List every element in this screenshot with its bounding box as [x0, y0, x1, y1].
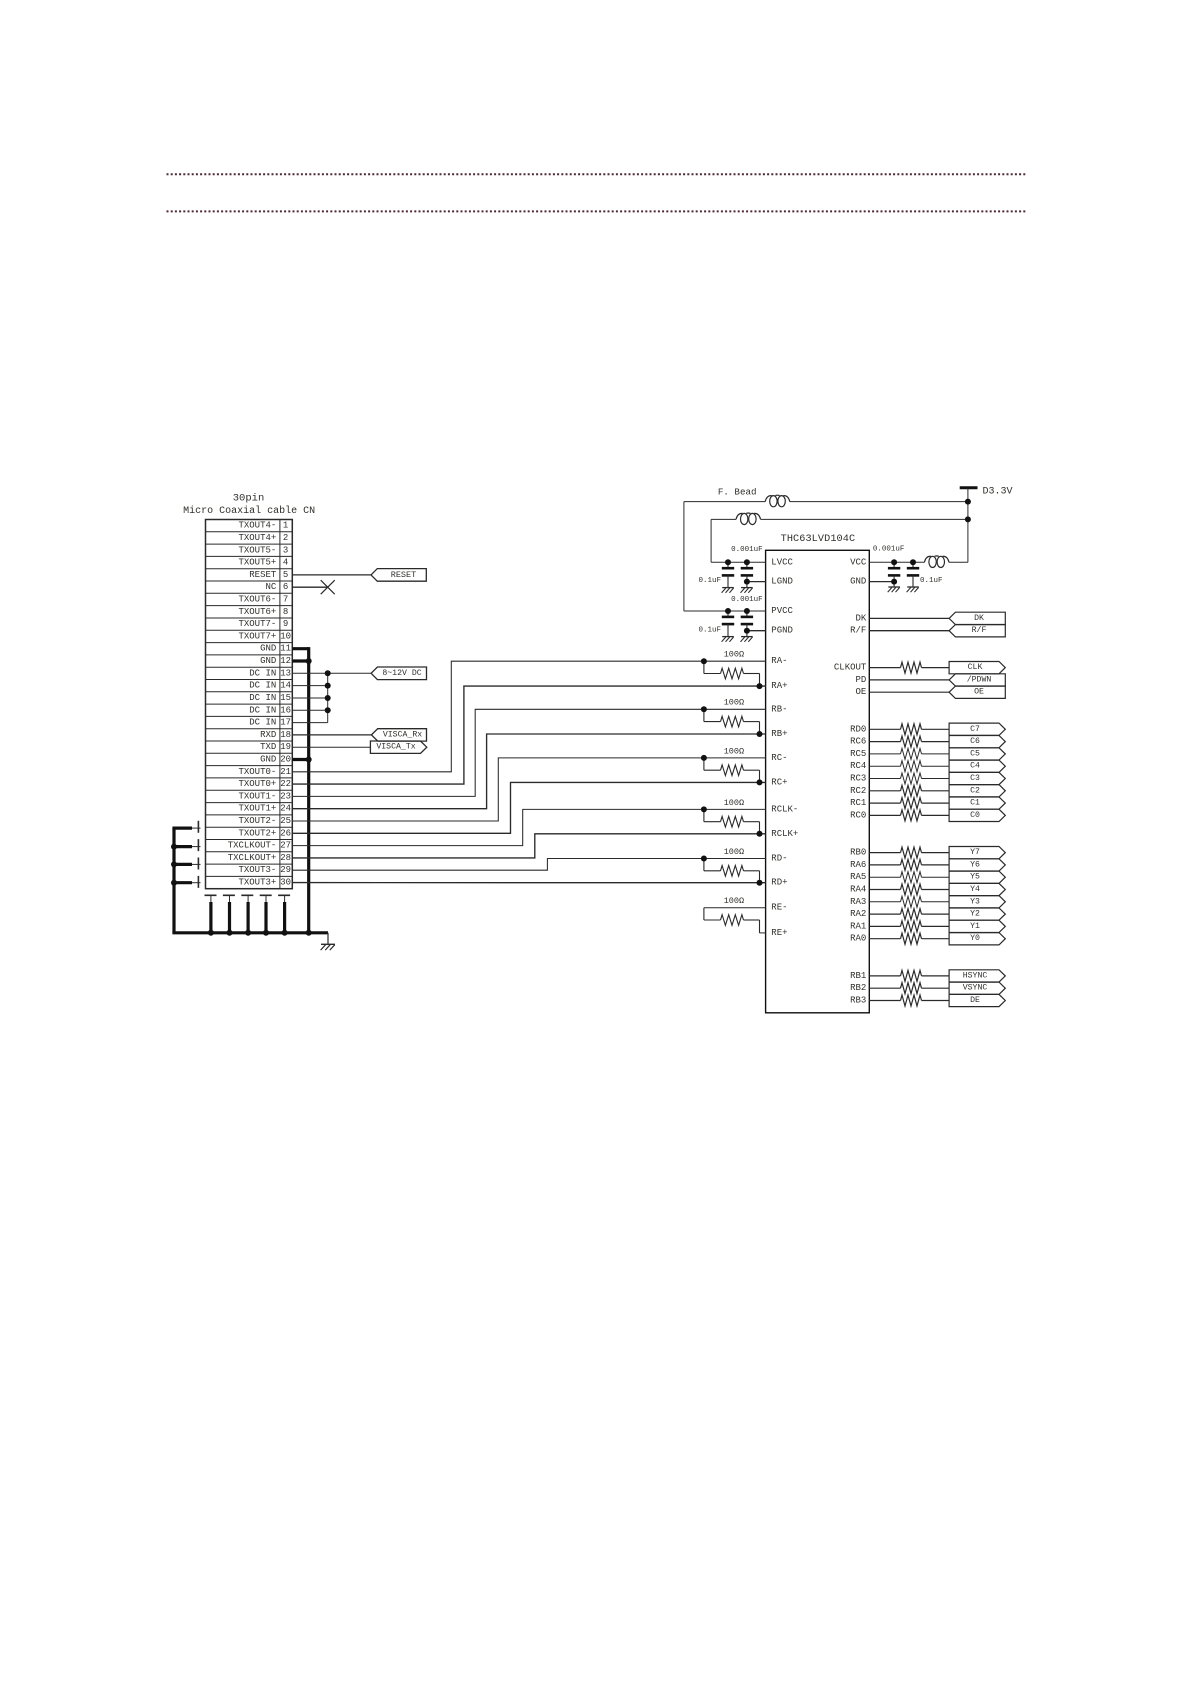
svg-text:D3.3V: D3.3V: [983, 487, 1013, 498]
junction DC IN pin 15: [325, 695, 331, 701]
junction pin20 on GND bus: [306, 757, 312, 763]
svg-text:TXOUT6+: TXOUT6+: [238, 607, 276, 617]
pin 12 GND row: [206, 656, 293, 667]
svg-text:CLKOUT: CLKOUT: [834, 663, 867, 673]
svg-text:Y3: Y3: [970, 897, 980, 906]
svg-text:GND: GND: [260, 656, 276, 666]
shield drain wire 3 below connector: [247, 895, 249, 933]
svg-text:RA-: RA-: [771, 656, 787, 666]
svg-text:GND: GND: [260, 755, 276, 765]
svg-text:RA5: RA5: [850, 872, 866, 882]
svg-text:RC0: RC0: [850, 810, 866, 820]
svg-text:9: 9: [283, 619, 288, 629]
pin 7 TXOUT6- row: [206, 595, 293, 606]
resistor+flag HSYNC from RB1: [869, 970, 1005, 982]
svg-text:20: 20: [280, 755, 291, 765]
connector CN1 title 30pin: [183, 492, 315, 517]
svg-text:100Ω: 100Ω: [724, 650, 744, 660]
junction shield drain on ground line: [245, 930, 251, 936]
shield drain bus left vertical: [172, 828, 175, 933]
svg-text:RB+: RB+: [771, 729, 787, 739]
svg-text:21: 21: [280, 767, 291, 777]
junction shield drain on ground line: [263, 930, 269, 936]
svg-text:TXOUT2+: TXOUT2+: [238, 828, 276, 838]
svg-text:RCLK+: RCLK+: [771, 829, 798, 839]
svg-text:29: 29: [280, 865, 291, 875]
ferrite bead FB2: [736, 513, 761, 525]
svg-text:Y7: Y7: [970, 848, 980, 857]
svg-text:RC+: RC+: [771, 777, 787, 787]
junction shield stub: [171, 861, 177, 867]
capacitor 0.1uF (PVCC) value label: [698, 626, 721, 634]
svg-text:RA1: RA1: [850, 921, 866, 931]
junction pin12 on GND bus: [306, 658, 312, 664]
svg-text:Y2: Y2: [970, 910, 980, 919]
svg-text:RC1: RC1: [850, 798, 866, 808]
pin 11 GND stub: [292, 647, 308, 650]
pin 13 DC IN row: [206, 668, 293, 679]
pin 24 TXOUT1+ row: [206, 804, 293, 815]
svg-text:R/F: R/F: [850, 626, 866, 636]
svg-text:DC IN: DC IN: [249, 681, 276, 691]
svg-text:RA0: RA0: [850, 934, 866, 944]
header dotted rule 2: [167, 210, 1026, 212]
svg-text:RC2: RC2: [850, 786, 866, 796]
junction D3.3V / FB1: [965, 499, 971, 505]
svg-text:10: 10: [280, 631, 291, 641]
svg-text:TXOUT6-: TXOUT6-: [238, 595, 276, 605]
svg-text:LGND: LGND: [771, 577, 793, 587]
cable shield dashed vertical: [197, 821, 199, 890]
junction VCC cap6: [910, 559, 916, 565]
wire pin 23 TXOUT1- to IC: [292, 709, 765, 796]
pin 1 TXOUT4- row: [206, 521, 293, 532]
wire LVCC: [711, 561, 766, 563]
svg-text:Y5: Y5: [970, 873, 980, 882]
pin 5 RESET wire: [292, 574, 371, 576]
capacitor C6 0.1uF at VCC: [907, 562, 920, 592]
svg-text:27: 27: [280, 841, 291, 851]
junction shield stub: [171, 844, 177, 850]
junction shield drain on ground line: [282, 930, 288, 936]
svg-text:TXOUT4+: TXOUT4+: [238, 533, 276, 543]
svg-text:VSYNC: VSYNC: [963, 984, 988, 993]
svg-text:100Ω: 100Ω: [724, 698, 744, 708]
svg-text:14: 14: [280, 681, 291, 691]
svg-text:DC IN: DC IN: [249, 693, 276, 703]
pin 19 TXD wire: [292, 746, 370, 748]
pin 30 TXOUT3+ row: [238, 878, 291, 888]
svg-text:RCLK-: RCLK-: [771, 804, 798, 814]
junction VCC cap5: [891, 559, 897, 565]
svg-text:PVCC: PVCC: [771, 606, 793, 616]
svg-text:TXOUT0-: TXOUT0-: [238, 767, 276, 777]
resistor 100 ohm terminator RE: [704, 896, 766, 933]
svg-text:TXOUT2-: TXOUT2-: [238, 816, 276, 826]
svg-text:100Ω: 100Ω: [724, 746, 744, 756]
svg-text:Y0: Y0: [970, 934, 980, 943]
svg-text:4: 4: [283, 558, 288, 568]
svg-text:DK: DK: [855, 613, 866, 623]
svg-text:3: 3: [283, 545, 288, 555]
svg-text:23: 23: [280, 791, 291, 801]
GND bus vertical wire: [307, 647, 310, 933]
svg-text:15: 15: [280, 693, 291, 703]
svg-text:NC: NC: [265, 582, 276, 592]
pin 18 RXD row: [206, 730, 293, 741]
flag VISCA_Tx: [370, 741, 426, 753]
ground: [321, 944, 335, 950]
shield stub 3: [172, 863, 200, 866]
capacitor C1 0.001uF at LVCC: [722, 562, 735, 593]
pin 11 GND row: [206, 644, 293, 655]
cable shield dashed horizontal below connector: [205, 894, 293, 896]
svg-text:TXOUT1-: TXOUT1-: [238, 791, 276, 801]
junction DC IN pin 13: [325, 670, 331, 676]
resistor 100 ohm terminator RD: [701, 847, 763, 886]
wire+flag DK: [869, 612, 1005, 624]
shield stub 4: [172, 881, 200, 884]
capacitor 0.1uF (VCC) value label: [920, 577, 943, 585]
header dotted rule 1: [167, 173, 1026, 175]
pin 22 TXOUT0+ row: [206, 779, 293, 790]
shield stub 2: [172, 845, 200, 848]
no-connect X on pin 6: [321, 580, 335, 594]
svg-text:HSYNC: HSYNC: [963, 971, 988, 980]
F.Bead label: [718, 487, 757, 498]
pin 29 TXOUT3- row: [206, 865, 293, 876]
svg-text:RXD: RXD: [260, 730, 276, 740]
svg-text:8: 8: [283, 607, 288, 617]
wire GND: [869, 581, 894, 583]
pin 14 DC IN row: [206, 681, 293, 692]
capacitor C4 0.1uF at PVCC: [741, 611, 754, 642]
svg-text:RA+: RA+: [771, 681, 787, 691]
junction GND cap5: [891, 579, 897, 585]
resistor+flag Y6 from RA6: [869, 859, 1005, 871]
pin 12 GND stub: [292, 659, 308, 662]
svg-text:0.1uF: 0.1uF: [920, 577, 943, 585]
resistor 100 ohm terminator RB: [701, 698, 763, 737]
resistor+flag Y7 from RB0: [869, 847, 1005, 859]
svg-text:TXOUT1+: TXOUT1+: [238, 804, 276, 814]
svg-text:25: 25: [280, 816, 291, 826]
pin 20 GND row: [206, 755, 293, 766]
wire VCC: [869, 561, 968, 563]
svg-text:C2: C2: [970, 786, 980, 795]
junction shield stub: [171, 880, 177, 886]
wire pin 28 TXCLKOUT+ to IC: [292, 834, 765, 858]
svg-text:VISCA_Tx: VISCA_Tx: [376, 743, 415, 752]
connector CN1 30pin Micro Coaxial cable table outline: [206, 520, 293, 889]
pin 5 RESET row: [206, 570, 293, 581]
resistor+flag C7 from RD0: [869, 723, 1005, 735]
svg-text:100Ω: 100Ω: [724, 847, 744, 857]
pin 8 TXOUT6+ row: [206, 607, 293, 618]
resistor+flag C2 from RC2: [869, 785, 1005, 797]
resistor 100 ohm terminator RC: [701, 746, 763, 785]
wire+flag /PDWN: [869, 674, 1005, 686]
pin 17 DC IN stub: [292, 722, 327, 724]
ferrite bead FB3 at VCC: [924, 556, 949, 568]
capacitor 0.001uF (LVCC) value label: [731, 546, 763, 554]
wire+flag R/F: [869, 625, 1005, 637]
pin 10 TXOUT7+ row: [206, 631, 293, 642]
pin 14 DC IN stub: [292, 685, 327, 687]
svg-text:RA3: RA3: [850, 897, 866, 907]
pin 9 TXOUT7- row: [206, 619, 293, 630]
svg-text:0.001uF: 0.001uF: [873, 546, 905, 554]
svg-text:RC3: RC3: [850, 774, 866, 784]
pin 28 TXCLKOUT+ row: [206, 853, 293, 864]
wire+flag OE: [869, 686, 1005, 698]
IC U1 THC63LVD104C body: [766, 550, 870, 1013]
svg-text:RA2: RA2: [850, 909, 866, 919]
svg-text:TXD: TXD: [260, 742, 276, 752]
svg-text:26: 26: [280, 828, 291, 838]
junction PVCC cap3: [725, 608, 731, 614]
ground symbol tail wire: [327, 933, 329, 945]
svg-text:DC IN: DC IN: [249, 668, 276, 678]
pin 21 TXOUT0- row: [206, 767, 293, 778]
svg-text:GND: GND: [260, 644, 276, 654]
pin 25 TXOUT2- row: [206, 816, 293, 827]
svg-text:7: 7: [283, 595, 288, 605]
resistor+flag Y4 from RA4: [869, 883, 1005, 895]
shield stub 1: [172, 826, 200, 829]
svg-text:DC IN: DC IN: [249, 705, 276, 715]
svg-text:0.001uF: 0.001uF: [731, 596, 763, 604]
svg-text:TXOUT4-: TXOUT4-: [238, 521, 276, 531]
svg-text:100Ω: 100Ω: [724, 798, 744, 808]
wire PVCC: [684, 610, 766, 612]
svg-text:0.001uF: 0.001uF: [731, 546, 763, 554]
flag RESET: [371, 569, 426, 582]
junction DC IN pin 14: [325, 683, 331, 689]
svg-text:C6: C6: [970, 737, 980, 746]
junction DC IN pin 16: [325, 707, 331, 713]
resistor+flag CLK (CLKOUT): [869, 662, 1005, 674]
svg-text:VCC: VCC: [850, 557, 867, 567]
shield drain wire 5 below connector: [284, 895, 286, 933]
svg-text:1: 1: [283, 521, 288, 531]
svg-text:OE: OE: [855, 687, 866, 697]
svg-text:RB2: RB2: [850, 983, 866, 993]
wire pin 27 TXCLKOUT- to IC: [292, 809, 765, 845]
ferrite bead FB1: [765, 495, 790, 507]
svg-text:17: 17: [280, 718, 291, 728]
capacitor 0.001uF (PVCC) value label: [731, 596, 763, 604]
junction LGND cap2: [744, 579, 750, 585]
wire PVCC feed (top): [684, 502, 968, 611]
pin 6 NC wire: [292, 586, 327, 588]
svg-text:TXCLKOUT+: TXCLKOUT+: [228, 853, 277, 863]
svg-text:30pin: 30pin: [233, 492, 265, 504]
svg-text:RC-: RC-: [771, 753, 787, 763]
junction LVCC cap2: [744, 559, 750, 565]
svg-text:C7: C7: [970, 725, 980, 734]
wire LGND: [747, 581, 766, 583]
svg-text:18: 18: [280, 730, 291, 740]
resistor+flag C4 from RC4: [869, 760, 1005, 772]
svg-text:RB3: RB3: [850, 996, 866, 1006]
flag 8~12V DC: [371, 667, 426, 680]
svg-text:TXOUT3-: TXOUT3-: [238, 865, 276, 875]
wire PGND: [747, 630, 766, 632]
svg-text:RC4: RC4: [850, 761, 866, 771]
junction LVCC cap1: [725, 559, 731, 565]
svg-text:RC5: RC5: [850, 749, 866, 759]
svg-text:R/F: R/F: [972, 625, 987, 635]
svg-text:C1: C1: [970, 799, 980, 808]
wire pin 25 TXOUT2- to IC: [292, 758, 765, 821]
pin 4 TXOUT5+ row: [206, 558, 293, 569]
svg-text:VISCA_Rx: VISCA_Rx: [383, 730, 422, 739]
svg-text:12: 12: [280, 656, 291, 666]
svg-text:RB0: RB0: [850, 848, 866, 858]
pin 15 DC IN row: [206, 693, 293, 704]
svg-text:/PDWN: /PDWN: [967, 674, 992, 684]
wire pin 22 TXOUT0+ to IC: [292, 686, 765, 784]
junction shield drain on ground line: [208, 930, 214, 936]
svg-text:TXOUT3+: TXOUT3+: [238, 878, 276, 888]
svg-text:TXOUT7-: TXOUT7-: [238, 619, 276, 629]
svg-text:5: 5: [283, 570, 288, 580]
pin 16 DC IN stub: [292, 709, 327, 711]
svg-text:16: 16: [280, 705, 291, 715]
resistor+flag C6 from RC6: [869, 736, 1005, 748]
resistor+flag C5 from RC5: [869, 748, 1005, 760]
capacitor C2 0.1uF at LVCC: [741, 562, 754, 593]
svg-text:Y6: Y6: [970, 860, 980, 869]
pin 3 TXOUT5- row: [206, 545, 293, 556]
svg-text:RA6: RA6: [850, 860, 866, 870]
svg-text:PD: PD: [855, 675, 866, 685]
wire pin 21 TXOUT0- to IC: [292, 661, 765, 772]
resistor+flag Y2 from RA2: [869, 908, 1005, 920]
power symbol D3.3V: [960, 487, 1013, 563]
svg-text:0.1uF: 0.1uF: [698, 626, 721, 634]
svg-text:6: 6: [283, 582, 288, 592]
shield drain wire 1 below connector: [210, 895, 212, 933]
pin 15 DC IN stub: [292, 697, 327, 699]
shield drain wire 4 below connector: [265, 895, 267, 933]
wire LVCC feed (second): [711, 519, 968, 562]
pin 19 TXD row: [206, 742, 293, 753]
svg-text:13: 13: [280, 668, 291, 678]
junction PGND cap4: [744, 628, 750, 634]
pin 26 TXOUT2+ row: [206, 828, 293, 839]
junction D3.3V / FB2: [965, 516, 971, 522]
pin 2 TXOUT4+ row: [206, 533, 293, 544]
svg-text:TXCLKOUT-: TXCLKOUT-: [228, 841, 277, 851]
svg-text:100Ω: 100Ω: [724, 896, 744, 906]
svg-text:F. Bead: F. Bead: [718, 487, 757, 498]
svg-text:C0: C0: [970, 811, 980, 820]
svg-text:0.1uF: 0.1uF: [698, 577, 721, 585]
svg-text:TXOUT7+: TXOUT7+: [238, 631, 276, 641]
svg-text:RE+: RE+: [771, 928, 787, 938]
capacitor 0.1uF (LVCC) value label: [698, 577, 721, 585]
svg-text:DE: DE: [970, 996, 980, 1005]
wire pin 26 TXOUT2+ to IC: [292, 782, 765, 833]
capacitor C5 0.001uF at VCC: [888, 562, 901, 592]
resistor+flag Y5 from RA5: [869, 871, 1005, 883]
svg-text:28: 28: [280, 853, 291, 863]
svg-text:C3: C3: [970, 774, 980, 783]
resistor+flag VSYNC from RB2: [869, 982, 1005, 994]
svg-text:RD-: RD-: [771, 854, 787, 864]
DC IN bus vertical wire: [327, 673, 329, 722]
capacitor 0.001uF (VCC) value label: [873, 546, 905, 554]
svg-text:19: 19: [280, 742, 291, 752]
resistor+flag Y1 from RA1: [869, 920, 1005, 932]
svg-text:Y4: Y4: [970, 885, 980, 894]
svg-text:RD+: RD+: [771, 878, 787, 888]
svg-text:RESET: RESET: [391, 570, 417, 580]
svg-text:RA4: RA4: [850, 885, 866, 895]
flag VISCA_Rx: [371, 729, 426, 741]
wire pin 24 TXOUT1+ to IC: [292, 734, 765, 809]
resistor+flag C0 from RC0: [869, 809, 1005, 821]
svg-text:30: 30: [280, 878, 291, 888]
svg-text:CLK: CLK: [968, 663, 983, 672]
svg-text:Y1: Y1: [970, 922, 980, 931]
svg-text:24: 24: [280, 804, 291, 814]
svg-text:LVCC: LVCC: [771, 557, 793, 567]
pin 13 DC IN wire to flag: [292, 672, 371, 674]
svg-text:RD0: RD0: [850, 724, 866, 734]
svg-text:DK: DK: [974, 614, 984, 623]
svg-text:C5: C5: [970, 749, 980, 758]
resistor+flag Y0 from RA0: [869, 933, 1005, 945]
pin 20 GND stub: [292, 758, 308, 761]
svg-text:22: 22: [280, 779, 291, 789]
svg-text:TXOUT5-: TXOUT5-: [238, 545, 276, 555]
svg-text:RC6: RC6: [850, 737, 866, 747]
svg-text:TXOUT0+: TXOUT0+: [238, 779, 276, 789]
svg-text:OE: OE: [974, 688, 984, 697]
resistor+flag C1 from RC1: [869, 797, 1005, 809]
capacitor C3 0.001uF at PVCC: [722, 611, 735, 642]
svg-text:2: 2: [283, 533, 288, 543]
IC U1 right pin names: [834, 557, 867, 1005]
shield drain wire 2 below connector: [229, 895, 231, 933]
svg-text:DC IN: DC IN: [249, 718, 276, 728]
svg-text:RB-: RB-: [771, 704, 787, 714]
ground line bottom: [172, 931, 328, 934]
svg-text:Micro Coaxial cable CN: Micro Coaxial cable CN: [183, 505, 315, 517]
pin 6 NC row: [206, 582, 293, 593]
pin 17 DC IN row: [206, 718, 293, 729]
junction shield drain on ground line: [227, 930, 233, 936]
resistor+flag Y3 from RA3: [869, 896, 1005, 908]
svg-text:GND: GND: [850, 577, 866, 587]
pin 27 TXCLKOUT- row: [206, 841, 293, 852]
resistor+flag C3 from RC3: [869, 772, 1005, 784]
IC U1 THC63LVD104C label: [781, 534, 856, 545]
svg-text:C4: C4: [970, 762, 980, 771]
resistor 100 ohm terminator RCLK: [701, 798, 763, 837]
svg-text:RESET: RESET: [249, 570, 277, 580]
IC U1 left pin names: [771, 557, 798, 938]
pin 18 RXD wire: [292, 734, 371, 736]
resistor+flag DE from RB3: [869, 994, 1005, 1006]
svg-text:RB1: RB1: [850, 971, 866, 981]
svg-text:PGND: PGND: [771, 626, 793, 636]
svg-text:11: 11: [280, 644, 291, 654]
svg-text:8~12V DC: 8~12V DC: [382, 669, 421, 678]
